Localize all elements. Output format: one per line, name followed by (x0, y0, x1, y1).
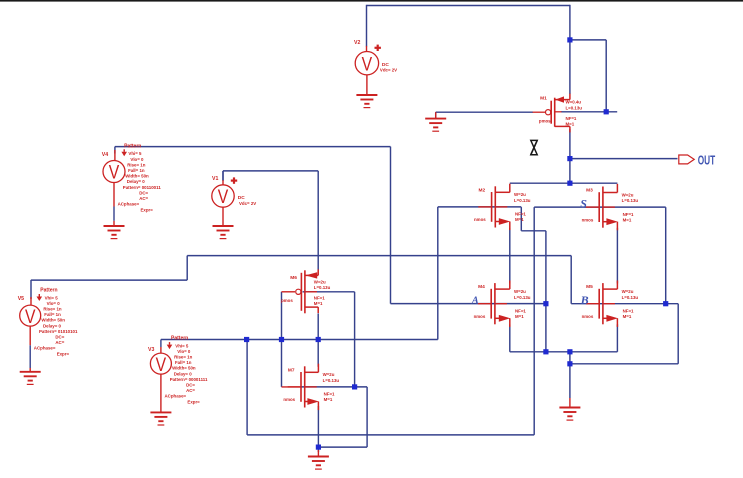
svg-text:M6: M6 (290, 275, 297, 281)
svg-text:Vlo= 0: Vlo= 0 (177, 349, 191, 354)
svg-text:NF=1: NF=1 (314, 295, 325, 300)
wire M6 gate (red pin) (282, 291, 296, 293)
svg-text:DC=: DC= (139, 190, 148, 195)
wire V1 horizontal (223, 170, 318, 172)
wire source rail (510, 351, 618, 353)
svg-text:ACphase=: ACphase= (34, 346, 56, 351)
svg-text:AC=: AC= (55, 340, 64, 345)
transistor M3 (nmos) (586, 184, 618, 230)
svg-text:V: V (362, 53, 373, 75)
wire M1 drain down (569, 129, 571, 183)
ground M1 gate (425, 119, 446, 132)
transistor M7 (nmos) (288, 364, 319, 410)
svg-text:M3: M3 (586, 188, 593, 194)
node A/bulk junction (543, 301, 548, 306)
wire V1 to ground (222, 207, 224, 226)
svg-text:W=2u: W=2u (514, 192, 526, 197)
node gnd rail junction 1 (543, 349, 548, 354)
svg-text:L=0.13u: L=0.13u (514, 198, 531, 203)
V4 positive stub (114, 150, 116, 161)
svg-text:Delay= 0: Delay= 0 (174, 371, 193, 376)
svg-text:nmos: nmos (283, 397, 295, 402)
svg-text:V5: V5 (18, 296, 24, 302)
svg-text:V2: V2 (354, 40, 360, 46)
wire M1 gate to ground (436, 111, 533, 113)
wire M3 gate/bulk (534, 206, 666, 208)
svg-text:nmos: nmos (582, 217, 594, 222)
svg-text:AC=: AC= (186, 388, 195, 393)
node gnd rail junction 3 (567, 361, 572, 366)
transistor M5 (nmos) (586, 281, 618, 327)
svg-text:pmos: pmos (539, 119, 551, 124)
wire B down (570, 256, 572, 304)
svg-text:nmos: nmos (582, 314, 594, 319)
svg-text:M=1: M=1 (324, 397, 333, 402)
svg-text:L=0.13u: L=0.13u (566, 106, 583, 111)
svg-text:W=2u: W=2u (314, 279, 326, 284)
node vdd junction (567, 37, 572, 42)
svg-text:Vlo= 0: Vlo= 0 (130, 157, 144, 162)
svg-text:Pattern= 00001111: Pattern= 00001111 (170, 377, 208, 382)
node bulk junction right (663, 301, 668, 306)
wire V3 up to M2 gate (437, 207, 439, 340)
node S junction (244, 337, 249, 342)
wire M4 source down (509, 324, 511, 352)
wire M3 source to M5 drain (616, 228, 618, 284)
top frame border (0, 0, 743, 2)
svg-text:W=2u: W=2u (622, 289, 634, 294)
wire M1 bulk (561, 111, 617, 113)
svg-text:Fall= 1n: Fall= 1n (175, 360, 192, 365)
V3 positive stub (160, 340, 162, 348)
wire bulk to ground (570, 363, 678, 365)
wire A vertical (390, 147, 392, 304)
node inverter junction (316, 337, 321, 342)
wire V3 output horizontal (161, 339, 438, 341)
svg-text:V3: V3 (148, 347, 154, 353)
V1 positive stub (222, 171, 224, 180)
svg-text:Width= 50n: Width= 50n (172, 366, 196, 371)
wire B long horizontal (187, 255, 571, 257)
svg-text:OUT: OUT (698, 153, 716, 168)
wire bulk vertical to gnd net (545, 231, 547, 352)
node M1 bulk junction (604, 109, 609, 114)
wire V5 stub (30, 280, 32, 299)
svg-text:NF=1: NF=1 (623, 308, 634, 313)
gnd net stem (569, 398, 571, 408)
svg-text:M=1: M=1 (623, 314, 632, 319)
polarity marker (375, 45, 381, 51)
svg-text:nmos: nmos (474, 217, 486, 222)
svg-text:B: B (580, 293, 589, 307)
svg-text:Vhi= 5: Vhi= 5 (175, 343, 189, 348)
svg-text:V: V (218, 186, 229, 208)
wire V4 stub (114, 147, 116, 154)
svg-text:M1: M1 (540, 96, 547, 102)
svg-text:Expr=: Expr= (141, 207, 154, 212)
svg-text:Expr=: Expr= (187, 400, 200, 405)
svg-text:Fall= 1n: Fall= 1n (128, 168, 145, 173)
M1 bulk pin stub (555, 111, 561, 113)
wire bulk loop down (366, 387, 368, 447)
wire vdd rail top (367, 5, 570, 7)
svg-text:Width= 50n: Width= 50n (125, 174, 149, 179)
wire M2 gate/bulk (438, 206, 522, 208)
svg-text:Pattern= 00110011: Pattern= 00110011 (123, 185, 162, 190)
wire S vertical to M3 gate (533, 207, 535, 435)
wire bulk jog (521, 230, 546, 232)
svg-text:NF=1: NF=1 (623, 212, 634, 217)
output pin OUT (679, 155, 694, 164)
svg-text:V4: V4 (102, 152, 108, 158)
voltage source V4 symbol (103, 161, 125, 183)
voltage source V5 symbol (20, 305, 41, 326)
svg-text:V: V (25, 306, 36, 328)
wire V5 horizontal (31, 279, 187, 281)
svg-text:S: S (580, 197, 587, 211)
wire to ground symbol (569, 352, 571, 398)
svg-text:L=0.13u: L=0.13u (323, 378, 340, 383)
wire V4 to ground (113, 183, 115, 207)
voltage source V3 symbol (150, 353, 171, 374)
svg-text:Pattern: Pattern (124, 144, 141, 150)
transistor M1 (pmos) (546, 94, 570, 133)
ground V4 (104, 226, 125, 239)
wire M7 gate (red pin) (282, 386, 301, 388)
svg-text:W=0.4u: W=0.4u (566, 100, 582, 105)
svg-text:NF=1: NF=1 (515, 308, 526, 313)
svg-text:Rise= 1n: Rise= 1n (174, 355, 193, 360)
ground V1 (213, 226, 234, 239)
svg-text:L=0.13u: L=0.13u (622, 295, 639, 300)
svg-text:M=1: M=1 (566, 122, 575, 127)
ground V2 (356, 95, 377, 108)
svg-text:Pattern= 01010101: Pattern= 01010101 (39, 329, 78, 334)
svg-text:Delay= 0: Delay= 0 (127, 179, 146, 184)
transistor M4 (nmos) (478, 281, 510, 327)
voltage source V2 symbol (355, 52, 378, 75)
wire M6 bulk down (354, 292, 356, 387)
svg-text:DC=: DC= (186, 383, 195, 388)
svg-text:NF=1: NF=1 (324, 392, 335, 397)
svg-text:L=0.13u: L=0.13u (314, 285, 331, 290)
svg-text:M=1: M=1 (623, 217, 632, 222)
wire V2 to ground (366, 75, 368, 95)
wire M6 bulk inner (303, 291, 355, 293)
ground V3 (150, 412, 171, 425)
source parameter labels (34, 288, 78, 357)
wire S branch down (246, 340, 248, 435)
wire M5 gate (B) and bulk (571, 303, 678, 305)
M1 gate pin stub (533, 111, 546, 113)
svg-text:Vhi= 5: Vhi= 5 (128, 151, 142, 156)
transistor M2 (nmos) (478, 184, 510, 230)
svg-text:NF=1: NF=1 (515, 212, 526, 217)
svg-text:M=1: M=1 (314, 301, 323, 306)
wire vdd to bulk branch (570, 39, 606, 41)
svg-text:DC=: DC= (55, 335, 64, 340)
svg-text:M4: M4 (478, 284, 485, 290)
node drain junction (567, 181, 572, 186)
svg-text:M=1: M=1 (515, 217, 524, 222)
svg-text:Rise= 1n: Rise= 1n (43, 307, 62, 312)
svg-text:W=2u: W=2u (323, 372, 335, 377)
node M7 gate/bulk junction (352, 384, 357, 389)
wire M2/M3 drains (510, 182, 618, 184)
node gate junction (279, 337, 284, 342)
svg-text:ACphase=: ACphase= (165, 394, 187, 399)
wire S bottom horizontal (247, 434, 534, 436)
svg-text:Expr=: Expr= (57, 352, 70, 357)
wire M7 bulk (301, 386, 367, 388)
wire V1 down to M6 source (317, 171, 319, 270)
svg-text:Vdc= 2V: Vdc= 2V (380, 68, 397, 73)
wire bulk branch vertical (605, 40, 607, 112)
svg-text:M=1: M=1 (515, 314, 524, 319)
wire M3 bulk down (665, 207, 667, 304)
polarity marker (231, 177, 237, 183)
wire vdd drop to M1 source (569, 5, 571, 94)
node OUT junction (567, 156, 572, 161)
M7 source ground stem (317, 450, 319, 457)
svg-text:AC=: AC= (139, 196, 148, 201)
ground main (559, 408, 580, 421)
wire M6/M7 gate vertical (281, 292, 283, 387)
svg-text:W=2u: W=2u (514, 289, 526, 294)
svg-text:M2: M2 (479, 187, 486, 193)
V5 positive stub (30, 297, 32, 305)
wire M5 source down (616, 324, 618, 352)
wire bulk loop bottom (318, 446, 367, 448)
svg-text:Vhi= 5: Vhi= 5 (45, 295, 59, 300)
svg-text:V: V (109, 162, 120, 184)
M1 gate ground stem (435, 112, 437, 118)
V2 positive stub (366, 46, 368, 52)
polarity marker (167, 342, 173, 349)
wire to OUT pin (570, 158, 678, 160)
svg-text:Fall= 1n: Fall= 1n (44, 312, 61, 317)
wire M2 source to M4 drain (509, 228, 511, 284)
wire V1 stub (222, 171, 224, 181)
svg-text:M7: M7 (288, 367, 295, 373)
svg-text:Vdc= 2V: Vdc= 2V (239, 201, 256, 206)
wire V2 to vdd rail (366, 5, 368, 47)
svg-text:pmos: pmos (281, 298, 293, 303)
svg-text:Rise= 1n: Rise= 1n (127, 162, 146, 167)
svg-text:nmos: nmos (474, 314, 486, 319)
svg-text:Pattern: Pattern (171, 336, 188, 342)
node M7 source junction (316, 445, 321, 450)
svg-text:NF=1: NF=1 (566, 116, 577, 121)
source parameter labels (118, 144, 162, 213)
wire bulk right down (677, 304, 679, 364)
svg-text:ACphase=: ACphase= (118, 202, 140, 207)
svg-text:W=2u: W=2u (622, 192, 634, 197)
svg-text:Pattern: Pattern (40, 288, 57, 294)
wire ground stem (435, 112, 437, 118)
svg-text:L=0.13u: L=0.13u (622, 198, 639, 203)
svg-text:V: V (156, 354, 167, 376)
ground M7 (308, 457, 329, 470)
wire M6 drain to M7 drain (317, 313, 319, 366)
polarity marker (121, 149, 127, 156)
polarity marker (37, 294, 43, 301)
source parameter labels (165, 336, 208, 405)
wire B step up (186, 256, 188, 281)
svg-text:M5: M5 (586, 284, 593, 290)
svg-text:Vlo= 0: Vlo= 0 (47, 301, 61, 306)
ground V5 (20, 372, 41, 385)
svg-text:A: A (471, 295, 479, 306)
no-connect hourglass symbol (531, 140, 537, 154)
wire M4 gate (A) and bulk (391, 303, 546, 305)
wire V3 to ground (160, 374, 162, 412)
svg-text:Width= 50n: Width= 50n (41, 318, 65, 323)
transistor M6 (pmos) (296, 269, 319, 313)
wire V5 to ground (29, 326, 31, 345)
svg-text:L=0.13u: L=0.13u (514, 295, 531, 300)
voltage source V1 symbol (212, 185, 234, 207)
node gnd rail junction 2 (567, 349, 572, 354)
svg-text:Delay= 0: Delay= 0 (43, 323, 62, 328)
wire M2 bulk down (520, 207, 522, 231)
wire V4 horizontal (115, 146, 391, 148)
svg-text:V1: V1 (212, 176, 218, 182)
wire M7 source to ground (317, 406, 319, 452)
